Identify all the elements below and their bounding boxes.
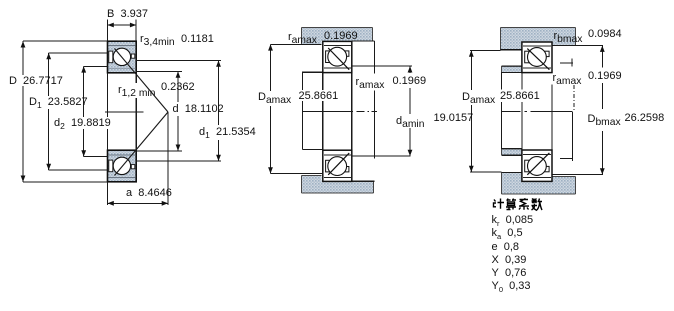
bottom band (right figure) [501, 173, 522, 194]
axis centerline (right) [502, 110, 521, 112]
bearing section lower-left (cross-section) ball [113, 157, 130, 174]
contact angle line lower [115, 112, 169, 176]
bearing section upper-left (cross-section) outline [108, 41, 137, 73]
ext d top [136, 71, 182, 73]
bearing lower (middle figure) ball [328, 157, 347, 176]
ext Damax bottom (right) [470, 171, 501, 173]
dim line d [177, 72, 179, 103]
ext d2 top [84, 65, 108, 67]
shaft contour vertical (right) [501, 73, 503, 90]
label D_bmax [588, 113, 621, 125]
bearing section upper-left (cross-section) ball [113, 48, 130, 65]
value 19.0157 [434, 112, 474, 124]
ext d bottom [136, 150, 182, 152]
label B 3.937 [107, 8, 148, 20]
dim a [107, 182, 109, 205]
ext Damax bottom [271, 173, 324, 175]
bearing upper (right figure) ball [528, 48, 547, 67]
value 0.2362 [161, 81, 195, 93]
label D_amax (right) [462, 91, 495, 103]
ext D top [23, 40, 108, 42]
right face line between sections (right) [551, 85, 553, 151]
row Y 0,76 [492, 267, 527, 279]
ext damin top [352, 65, 412, 67]
bearing lower (middle figure) [323, 150, 352, 181]
axis centerline (middle) [303, 110, 354, 112]
dim B [107, 20, 109, 42]
value 0.1969 right (middle) [393, 75, 427, 87]
housing band top (middle figure) [302, 28, 373, 41]
axis centerline [105, 111, 144, 113]
ext Dbmax top + band bottom edge [552, 45, 603, 47]
label a 8.4646 [126, 187, 172, 199]
ext Damax top (right) [470, 49, 501, 51]
ext D1 top [49, 52, 108, 54]
label r3,4min [140, 33, 175, 45]
bearing section lower-left (cross-section) cage [109, 160, 113, 172]
ext D1 bottom [49, 169, 108, 171]
bearing section lower-left (cross-section) [108, 150, 137, 182]
heading 计算系数 (drawn strokes) [494, 199, 543, 211]
bearing upper (middle figure) ball [328, 47, 347, 66]
ext damin bottom [352, 155, 411, 157]
ext Dbmax bottom [551, 174, 603, 176]
value 0.1969 (right) [588, 70, 622, 82]
label d 18.1102 [173, 103, 224, 115]
bearing upper (middle figure) [323, 41, 352, 72]
r_amax fillet marks (right) [560, 62, 573, 64]
row e 0,8 [492, 241, 520, 253]
right face line between sections (middle) [351, 73, 353, 151]
row kr 0,085 [492, 214, 534, 226]
bearing upper (middle figure) contact diagonal [328, 48, 349, 70]
ext Damax top [271, 43, 322, 45]
left face line between sections (right) [521, 73, 523, 90]
row ka 0,5 [492, 227, 523, 239]
ext d2 bottom [84, 156, 108, 158]
shaft surface line right of box [352, 180, 375, 182]
bearing lower (right figure) ball [528, 157, 547, 176]
dim line D [22, 41, 24, 75]
bearing upper (right figure) contact diagonal [527, 49, 549, 70]
dim line Dbmax [601, 46, 603, 68]
bearing lower (middle figure) contact diagonal [328, 153, 349, 175]
left face line between sections (middle) [322, 73, 324, 90]
bearing upper (right figure) [522, 42, 552, 73]
shaft contour (middle) [302, 71, 323, 73]
label d_amin [396, 115, 424, 127]
bearing lower (right figure) [522, 150, 552, 181]
housing bore line right of box [352, 40, 375, 42]
label d1 21.5354 [199, 126, 256, 138]
bearing lower (right figure) contact diagonal [527, 153, 549, 175]
value 0.1181 [181, 33, 214, 45]
ext d1 bottom [136, 160, 221, 162]
label D 26.7717 [9, 75, 63, 87]
dim line D1 [48, 53, 50, 96]
dim line d2 [83, 66, 85, 117]
ext d1 top [136, 60, 221, 62]
housing band bottom (middle figure) [302, 182, 374, 194]
bearing lower (right figure) cage [525, 160, 530, 172]
bearing upper (right figure) cage [525, 51, 530, 63]
dim line d1 [218, 61, 220, 126]
row Y0 0,33 [492, 280, 531, 292]
bearing section upper-left (cross-section) cage [109, 51, 113, 63]
value 0.0984 [588, 28, 622, 40]
row X 0,39 [492, 254, 527, 266]
bearing upper (middle figure) cage [326, 51, 331, 63]
label r1,2min [118, 84, 155, 96]
value 0.1969 top (middle) [324, 30, 358, 42]
ext D bottom [23, 181, 108, 183]
label d2 19.8819 [54, 117, 111, 129]
contact angle line upper [115, 49, 169, 113]
bearing section upper-left (cross-section) [108, 41, 137, 73]
label D1 23.5827 [29, 96, 88, 108]
dim line damin [409, 66, 411, 73]
label r_amax top (middle) [288, 31, 317, 43]
dim line Damax [270, 44, 272, 91]
dim line Damax (right) [470, 50, 472, 90]
dash-dot vertical [573, 85, 575, 111]
shaft shoulder left of box lower (right fig) [501, 148, 522, 150]
right face line between sections [135, 73, 137, 83]
bearing section lower-left (cross-section) outline [108, 150, 137, 182]
value 25.8661 (right) [500, 90, 540, 102]
value 25.8661 (middle) [299, 90, 339, 102]
boundary vertical line [374, 41, 376, 74]
label r_bmax (right) [554, 30, 583, 42]
left face line between sections [107, 73, 109, 117]
label r_amax (right) [553, 72, 582, 84]
housing band top (right figure) [501, 28, 576, 42]
shaft shoulder left of box (right fig) [501, 65, 522, 67]
label r_amax right (middle) [356, 76, 385, 88]
value 26.2598 [625, 112, 665, 124]
bearing lower (middle figure) cage [326, 160, 331, 172]
label D_amax (middle) [258, 91, 291, 103]
